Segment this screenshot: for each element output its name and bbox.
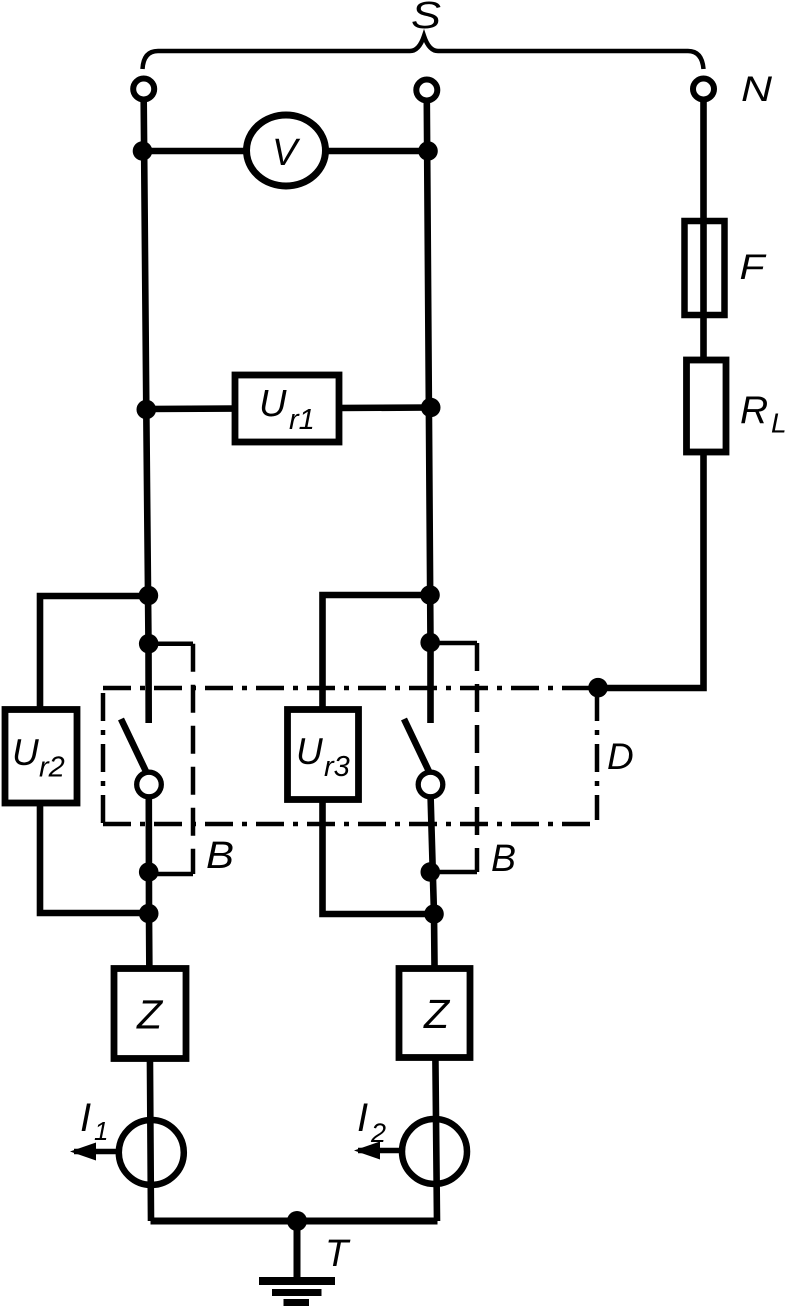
svg-text:L: L [771,408,787,439]
svg-text:Z: Z [136,992,164,1038]
svg-text:R: R [740,389,768,432]
svg-text:F: F [740,248,768,287]
svg-text:I: I [357,1096,368,1140]
svg-text:I: I [80,1096,91,1140]
svg-text:U: U [259,383,287,425]
svg-text:2: 2 [370,1118,386,1148]
svg-text:D: D [607,736,634,777]
svg-text:B: B [206,835,234,877]
svg-text:Z: Z [423,991,451,1037]
svg-text:N: N [741,70,773,109]
svg-text:r1: r1 [289,404,315,436]
svg-text:U: U [296,731,323,772]
svg-text:S: S [411,0,441,37]
svg-text:U: U [12,732,39,773]
svg-text:r3: r3 [324,751,350,783]
svg-text:V: V [272,132,301,174]
svg-text:T: T [325,1233,351,1275]
svg-text:1: 1 [94,1116,108,1146]
svg-text:B: B [491,838,516,880]
svg-text:r2: r2 [39,752,65,784]
